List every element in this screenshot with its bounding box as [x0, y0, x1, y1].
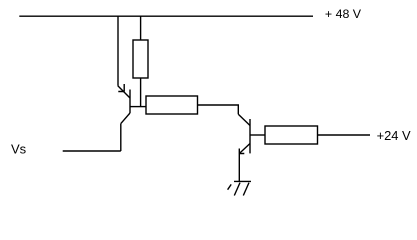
svg-text:+ 48 V: + 48 V [325, 7, 362, 21]
svg-text:Vs: Vs [11, 141, 27, 156]
wire Q1 base to R2 [130, 106, 146, 108]
transistor Q2 [238, 114, 250, 153]
wire R1 top lead [140, 16, 142, 40]
label +48V [325, 7, 362, 21]
label Vs [11, 141, 27, 156]
label +24V [377, 128, 411, 143]
wire Q2 collector to R3 [250, 134, 265, 136]
resistor R2 [146, 96, 198, 114]
wire Q2 emitter to ground [238, 154, 240, 182]
resistor R3 [265, 126, 318, 144]
wire emitter feed from rail [117, 16, 119, 86]
wire Vs horizontal [63, 150, 121, 152]
transistor Q1 [118, 84, 130, 124]
ground [228, 181, 251, 195]
resistor R1 [133, 40, 148, 78]
wire R3 to +24V [318, 134, 371, 136]
+48V rail wire [19, 15, 313, 17]
wire Q1 collector down [120, 124, 122, 151]
svg-text:+24 V: +24 V [377, 128, 411, 143]
wire R2 to Q2 [198, 105, 239, 114]
wire R1 bottom lead [140, 78, 142, 107]
